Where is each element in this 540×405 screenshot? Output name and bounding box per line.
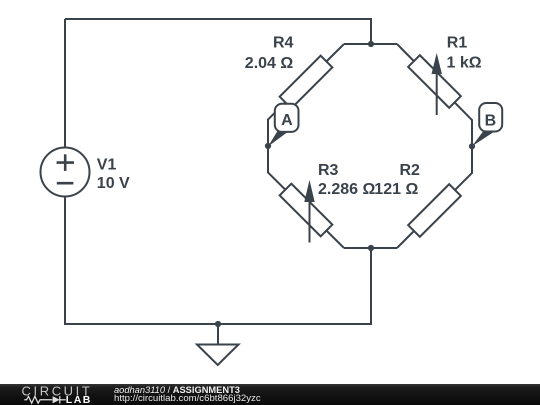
svg-text:1 kΩ: 1 kΩ [447, 54, 482, 71]
svg-text:R3: R3 [318, 162, 339, 179]
svg-text:R1: R1 [447, 34, 468, 51]
svg-text:V1: V1 [97, 157, 117, 174]
svg-text:R4: R4 [273, 35, 294, 52]
svg-text:2.286 Ω: 2.286 Ω [318, 181, 375, 198]
svg-text:A: A [281, 112, 293, 129]
svg-text:R2: R2 [400, 162, 421, 179]
svg-text:2.04 Ω: 2.04 Ω [245, 55, 294, 72]
svg-text:121 Ω: 121 Ω [374, 181, 418, 198]
svg-text:B: B [485, 112, 497, 129]
svg-text:10 V: 10 V [97, 175, 130, 192]
svg-text:LAB: LAB [66, 394, 92, 405]
